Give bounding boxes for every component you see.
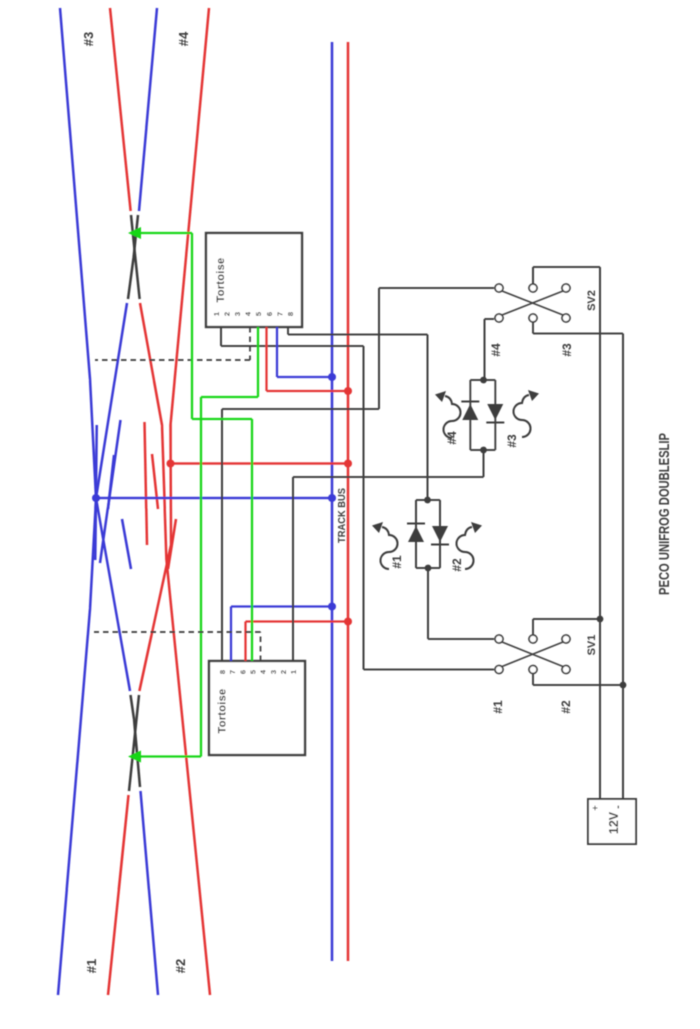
- svg-text:3: 3: [233, 312, 242, 316]
- svg-text:#2: #2: [173, 959, 188, 973]
- svg-text:#3: #3: [560, 343, 574, 357]
- svg-text:2: 2: [279, 670, 288, 674]
- svg-text:#1: #1: [84, 959, 99, 973]
- svg-text:8: 8: [218, 670, 227, 674]
- svg-text:8: 8: [286, 312, 295, 316]
- svg-text:5: 5: [254, 312, 263, 316]
- svg-text:1: 1: [289, 670, 298, 674]
- svg-text:#2: #2: [559, 700, 573, 714]
- svg-text:#3: #3: [81, 32, 96, 46]
- svg-text:1: 1: [212, 312, 221, 316]
- svg-text:12V: 12V: [607, 811, 621, 834]
- svg-text:6: 6: [238, 670, 247, 674]
- svg-text:#1: #1: [491, 700, 505, 714]
- svg-text:-: -: [612, 805, 624, 809]
- svg-text:#4: #4: [176, 31, 191, 46]
- svg-text:PECO UNIFROG DOUBLESLIP: PECO UNIFROG DOUBLESLIP: [657, 433, 673, 595]
- svg-text:5: 5: [248, 670, 257, 674]
- svg-text:7: 7: [275, 312, 284, 316]
- svg-text:2: 2: [223, 312, 232, 316]
- svg-text:#4: #4: [489, 343, 503, 357]
- svg-text:+: +: [590, 805, 600, 810]
- svg-text:TRACK BUS: TRACK BUS: [337, 488, 348, 543]
- svg-text:6: 6: [265, 312, 274, 316]
- svg-text:3: 3: [269, 670, 278, 674]
- svg-text:#2: #2: [450, 558, 464, 572]
- svg-text:SV2: SV2: [586, 290, 598, 311]
- svg-text:#1: #1: [390, 555, 404, 569]
- svg-text:Tortoise: Tortoise: [215, 258, 227, 303]
- svg-text:Tortoise: Tortoise: [217, 689, 229, 734]
- svg-text:#3: #3: [505, 434, 519, 448]
- svg-text:SV1: SV1: [586, 635, 598, 656]
- svg-text:7: 7: [228, 670, 237, 674]
